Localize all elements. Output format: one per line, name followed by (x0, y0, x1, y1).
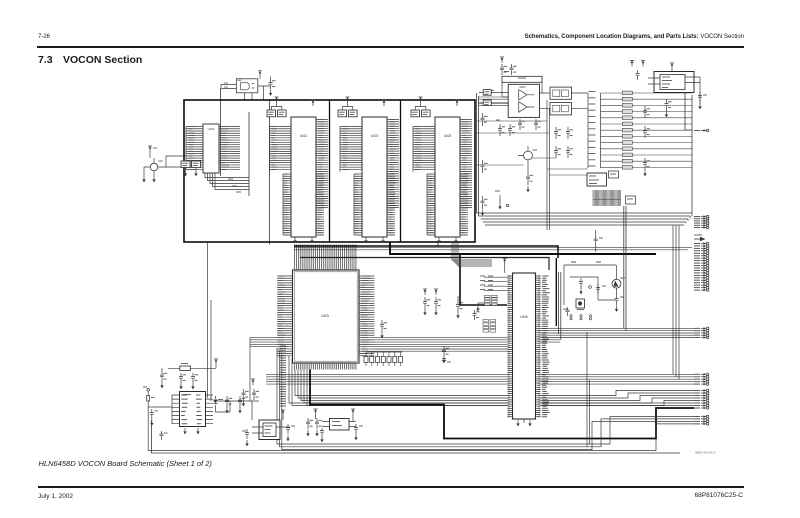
capacitor C433 (380, 320, 387, 338)
wire bus QFP top to U406 (294, 242, 692, 305)
capacitor C402 (179, 373, 186, 389)
U408 left pins (172, 395, 188, 424)
capacitor C490 (698, 92, 707, 109)
capacitor C488 (665, 99, 672, 117)
test points (570, 315, 592, 320)
connector pins group6 (694, 415, 709, 425)
U402 upper-left pins (340, 127, 362, 172)
wire cascade QFP to connector group5 (289, 356, 694, 406)
IC U408 (180, 392, 206, 427)
net label boxes column (622, 91, 692, 169)
svg-text:6881076C25-O: 6881076C25-O (695, 451, 716, 455)
power symbol P401 (214, 359, 218, 368)
connector pins group5 (694, 389, 709, 409)
U403 upper-right pins (460, 120, 472, 208)
capacitor C486 (473, 310, 480, 320)
decoupling capacitors above U414 (267, 103, 286, 117)
connector J402 pins group1 (694, 215, 709, 229)
svg-text:U414: U414 (300, 134, 308, 138)
wire U413 inputs (221, 83, 236, 89)
section heading (38, 54, 53, 66)
resistor R479 pair (554, 146, 573, 158)
U408 right pins (196, 395, 213, 424)
ground below U406 (516, 419, 531, 426)
op-amp U413 (236, 79, 257, 93)
U402 upper-right pins (387, 120, 399, 208)
diode D401 (214, 396, 224, 408)
svg-text:U406: U406 (520, 315, 528, 319)
power symbol above U403 (419, 97, 460, 106)
U405 left pins (277, 276, 293, 356)
net stub symbols (442, 346, 451, 363)
wire from U413 to RAM bank (221, 89, 270, 245)
power symbol above U413 (258, 71, 262, 77)
power symbol above U414 (275, 97, 316, 106)
ground below U408 (183, 428, 199, 434)
resistor R409 on frame (150, 409, 158, 426)
speaker LS470 (576, 299, 585, 310)
U403 lower-right pins (460, 174, 468, 235)
resistor R470 feedback (502, 72, 542, 98)
transistor Q424 (144, 158, 163, 176)
transistor Q470 (518, 146, 537, 165)
wire bus A right segment (375, 328, 695, 351)
U405 lower-left labels (280, 346, 286, 406)
capacitor C403 (191, 373, 198, 389)
capacitor C473 (579, 278, 583, 294)
memory IC U414 (291, 117, 316, 237)
resistor R478 pair (554, 127, 573, 139)
U414 lower-right pins (316, 174, 324, 235)
ground symbols below U414 (293, 237, 313, 243)
power above U412 (314, 409, 356, 421)
capacitor C408 (286, 424, 295, 441)
U406 right pins (536, 276, 550, 417)
U405 bottom pins (295, 363, 356, 370)
power above U407 (281, 410, 285, 420)
wire verticals below U406 area (587, 332, 590, 447)
capacitor C405 (225, 396, 232, 413)
wire corners to U406 (452, 242, 492, 266)
capacitor C420 (181, 161, 190, 176)
U405 right pins (359, 276, 375, 356)
filter FL470 (540, 87, 589, 99)
resistor R471 below Q470 (526, 165, 533, 192)
U405 top pins (295, 245, 356, 271)
capacitor C412 (354, 424, 363, 440)
capacitor C476 (596, 284, 606, 294)
capacitors left of U406 row1 (480, 276, 508, 291)
power arrows top right (630, 61, 645, 81)
U402 lower-right pins (387, 174, 395, 235)
filter FL471 (540, 102, 589, 115)
U403P bottom pins (593, 190, 621, 206)
resistor R430 (456, 296, 463, 318)
U424 left pins (186, 127, 203, 171)
DSP box U403P (587, 173, 607, 186)
wire U413 output (245, 77, 264, 100)
capacitor C406 (238, 396, 245, 413)
U402 lower-left pins (354, 174, 362, 235)
capacitor C425 pair (242, 379, 260, 406)
stub with ground mid (495, 191, 509, 209)
capacitors above U411 (500, 57, 517, 75)
U424 right pins (219, 127, 240, 170)
regulator U470 (648, 72, 700, 105)
decoupling capacitors above U403 (411, 103, 430, 117)
oscillator U407 (252, 420, 290, 440)
IC U406 body (513, 273, 536, 419)
resistors below U411 (496, 120, 515, 136)
memory IC U403 (435, 117, 460, 237)
svg-text:U405: U405 (321, 314, 329, 318)
capacitor C430 (423, 289, 430, 315)
RAM bank enclosure box (184, 100, 475, 242)
wire cascade to connector group6 (148, 348, 694, 451)
inductor L401 (168, 364, 216, 371)
IC U424 (203, 124, 219, 173)
page number header (38, 34, 50, 40)
footer date (38, 493, 73, 500)
U403 lower-left pins (427, 174, 435, 235)
connector J401 pins (694, 242, 709, 291)
capacitor C413 (264, 77, 276, 96)
MCU U405 QFP body (293, 270, 360, 363)
ground symbols below U403 (437, 237, 457, 243)
footer rule (38, 486, 744, 488)
power above U470 (670, 63, 674, 72)
capacitor C431 (434, 289, 441, 315)
connector pins group3 (694, 327, 709, 339)
audio net ladder (588, 92, 622, 168)
U414 upper-left pins (270, 127, 292, 172)
U406 left pins (508, 276, 513, 417)
resistor R475 (615, 295, 625, 312)
jumper boxes left of U406 grid2 (483, 320, 496, 333)
resistors left column (481, 113, 488, 216)
resistor R477 (594, 230, 603, 252)
jumper boxes left of U406 grid1 (485, 295, 498, 305)
power symbol P424 (148, 146, 157, 152)
schematic caption (39, 459, 212, 468)
header rule (37, 46, 744, 48)
alert speaker subcircuit wires (564, 262, 616, 305)
connector pins group4 (694, 373, 709, 385)
capacitor C401 (160, 368, 167, 388)
capacitor C484 group (643, 106, 650, 176)
svg-text:U402: U402 (371, 134, 379, 138)
svg-text:U424: U424 (208, 127, 215, 131)
transistor Q472 (612, 265, 625, 295)
capacitor C415 (160, 431, 168, 440)
capacitor C478 pair (518, 119, 541, 130)
power above U406 (503, 259, 507, 274)
wire bus A left segment (250, 338, 277, 401)
wire bottom left frame (152, 420, 681, 454)
capacitor C410 C411 (306, 418, 322, 436)
capacitor C472 (563, 307, 570, 316)
decoupling capacitors above U402 (338, 103, 357, 117)
small box right of U403P (609, 171, 619, 178)
wire verticals to bus A (624, 206, 679, 379)
ground stub left of U406 (476, 303, 484, 311)
wire analog crossconnects (477, 121, 589, 175)
header title (525, 34, 744, 40)
wire verticals to U408 (208, 242, 212, 401)
analog section frame wires (477, 90, 693, 230)
wire Q424 to U424 (158, 156, 186, 167)
wire heavy bottom bus (310, 370, 694, 439)
U414 upper-right pins (316, 120, 328, 208)
power symbol bottom left frame (143, 387, 172, 407)
wire bus right of U424 (248, 112, 250, 196)
capacitor C409 (320, 428, 324, 442)
capacitor C470 C471 boxes (479, 90, 508, 106)
capacitor C407 (242, 429, 249, 446)
ground symbols below U402 (364, 237, 384, 243)
op-amp U411 (508, 84, 539, 117)
svg-text:U403: U403 (444, 134, 452, 138)
U411 input wires (479, 91, 508, 106)
capacitor C421 (192, 161, 201, 176)
connector pin right mid (694, 129, 709, 132)
U403 upper-left pins (413, 127, 435, 172)
ground below Q424 (142, 176, 155, 182)
wire bus B (266, 374, 694, 384)
wire fan below U424 (205, 173, 249, 192)
junction node (589, 286, 592, 289)
wire heavy verticals right of U406 (556, 258, 561, 340)
small box below right (626, 196, 636, 204)
connector arrow pin (694, 235, 706, 241)
footer part number (695, 492, 743, 499)
IC U412 (322, 419, 356, 431)
U414 lower-left pins (283, 174, 291, 235)
resistor network R440-R446 (364, 352, 403, 366)
power symbol above U402 (346, 97, 387, 106)
memory IC U402 (362, 117, 387, 237)
wire U408 outputs (213, 401, 259, 420)
